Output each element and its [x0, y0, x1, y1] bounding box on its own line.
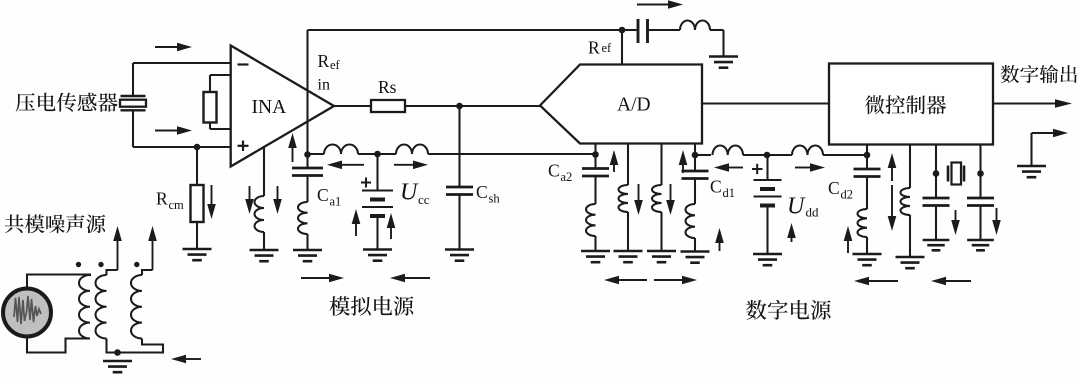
svg-text:cc: cc	[418, 192, 430, 207]
svg-text:R: R	[156, 189, 168, 209]
svg-text:R: R	[318, 51, 330, 71]
svg-text:INA: INA	[252, 97, 287, 118]
svg-text:ef: ef	[330, 58, 341, 72]
svg-text:in: in	[318, 77, 330, 94]
svg-text:a2: a2	[561, 170, 573, 184]
svg-text:C: C	[548, 161, 560, 181]
svg-text:U: U	[787, 194, 806, 220]
svg-text:C: C	[476, 182, 488, 202]
svg-text:Rs: Rs	[378, 77, 397, 97]
svg-text:C: C	[317, 185, 329, 205]
svg-text:A/D: A/D	[617, 95, 651, 116]
svg-text:ef: ef	[602, 41, 613, 55]
svg-text:sh: sh	[489, 192, 501, 206]
svg-text:C: C	[710, 177, 722, 197]
svg-text:C: C	[828, 178, 840, 198]
svg-text:d1: d1	[723, 186, 736, 200]
svg-text:dd: dd	[806, 205, 820, 220]
svg-text:cm: cm	[169, 198, 185, 212]
svg-text:U: U	[400, 180, 419, 206]
svg-text:d2: d2	[841, 188, 854, 202]
svg-text:a1: a1	[330, 195, 342, 209]
svg-text:R: R	[588, 38, 600, 58]
